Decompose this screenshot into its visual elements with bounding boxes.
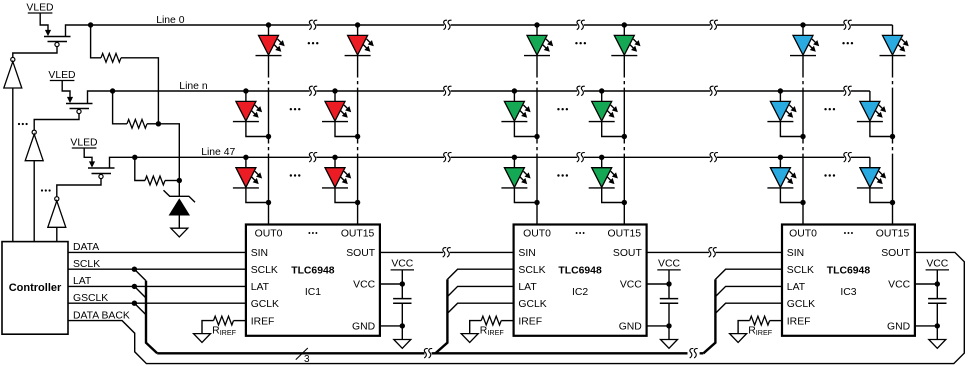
node R3 junction bbox=[177, 178, 182, 183]
node LAT label bbox=[73, 276, 92, 287]
wire Q1 drain to line bbox=[66, 22, 94, 36]
bus riser to IC2 bbox=[435, 279, 447, 353]
ellipsis OUT pins IC3 bbox=[844, 232, 853, 234]
node LAT tap junction bbox=[132, 284, 137, 289]
pin GCLK label IC2 bbox=[518, 299, 546, 310]
svg-text:LAT: LAT bbox=[787, 282, 806, 293]
ground RIREF IC1 bbox=[194, 334, 211, 343]
svg-text:SCLK: SCLK bbox=[73, 259, 100, 270]
pin SIN label IC3 bbox=[787, 248, 804, 259]
ellipsis row2 group 2 bbox=[557, 174, 568, 176]
wire break on Line 0 bbox=[444, 20, 452, 29]
wire LED cathode to column R1 bbox=[246, 188, 269, 203]
pin IREF label IC3 bbox=[787, 316, 811, 327]
svg-text:VCC: VCC bbox=[926, 258, 948, 269]
svg-text:OUT15: OUT15 bbox=[341, 228, 375, 239]
wire LED cathode to column B1 bbox=[780, 121, 803, 136]
svg-text:IREF: IREF bbox=[518, 316, 542, 327]
wire Q2 drain to line bbox=[88, 88, 116, 103]
wire DATA BACK return bbox=[68, 252, 964, 363]
svg-text:GCLK: GCLK bbox=[787, 299, 815, 310]
node line n junction col R2 bbox=[332, 88, 337, 93]
wire Q1 gate to inverter U1 bbox=[13, 47, 57, 58]
svg-text:VLED: VLED bbox=[70, 137, 97, 148]
node column join B2 bbox=[890, 134, 895, 139]
wire tap LAT IC2 bbox=[447, 286, 513, 296]
pin SCLK label IC2 bbox=[518, 265, 545, 276]
wire LED cathode to column B2 bbox=[870, 121, 893, 136]
node column join R1 bbox=[266, 134, 271, 139]
pin VCC label IC3 bbox=[888, 280, 910, 291]
pin GCLK label IC3 bbox=[787, 299, 815, 310]
ground capacitor C3 bbox=[915, 323, 946, 348]
VCC supply IC2 bbox=[647, 258, 681, 286]
node SCLK label bbox=[73, 259, 100, 270]
wire LED cathode to column G2 bbox=[602, 121, 625, 136]
wire SCLK bbox=[68, 268, 246, 270]
svg-text:SOUT: SOUT bbox=[881, 248, 911, 259]
LED row0 col B2 bbox=[880, 25, 909, 56]
node Line 47 label bbox=[201, 147, 235, 158]
LED line 47 col B1 bbox=[767, 168, 796, 188]
node line0 junction col G2 bbox=[622, 22, 627, 27]
node DATA label bbox=[73, 242, 99, 253]
ellipsis row2 group 3 bbox=[824, 174, 835, 176]
node Line n label bbox=[179, 81, 208, 92]
svg-text:IREF: IREF bbox=[220, 328, 237, 337]
svg-text:SIN: SIN bbox=[518, 248, 535, 259]
ellipsis row1 group 3 bbox=[824, 108, 835, 110]
node line n junction col B1 bbox=[778, 88, 783, 93]
node line 47 junction col G1 bbox=[512, 155, 517, 160]
pin OUT15 label IC1 bbox=[341, 228, 375, 239]
wire rail to zener bbox=[158, 124, 179, 197]
svg-text:IREF: IREF bbox=[756, 328, 773, 337]
wire break on bus 2 bbox=[690, 349, 698, 358]
VLED supply 2 bbox=[48, 70, 75, 81]
pin IREF label IC1 bbox=[251, 316, 275, 327]
capacitor C1 bbox=[393, 284, 411, 326]
wire break on Line n bbox=[309, 86, 317, 95]
node column join G1 bbox=[534, 134, 539, 139]
svg-text:TLC6948: TLC6948 bbox=[827, 265, 871, 276]
wire break on Line n bbox=[710, 86, 718, 95]
svg-text:SOUT: SOUT bbox=[613, 248, 643, 259]
wire column B2 with breaks bbox=[892, 56, 894, 225]
wire inverter U2 input from controller bbox=[33, 161, 35, 242]
svg-text:OUT15: OUT15 bbox=[876, 228, 910, 239]
wire break on Line 0 bbox=[577, 20, 585, 29]
wire LED anode col R1 bbox=[245, 157, 247, 167]
wire line 47 bend into LED col B2 bbox=[869, 157, 871, 167]
wire Q3 drain to line bbox=[110, 155, 138, 168]
wire tap GCLK IC3 bbox=[715, 303, 782, 313]
node column join B1 bbox=[800, 134, 805, 139]
bus slash 3-wire marker bbox=[296, 348, 310, 365]
LED line 47 col G1 bbox=[501, 168, 530, 188]
pin SIN label IC1 bbox=[251, 248, 268, 259]
inverter U3 bbox=[48, 197, 66, 228]
ground RIREF IC2 bbox=[461, 334, 478, 343]
wire LED cathode to column B1 bbox=[780, 188, 803, 203]
wire break on Line n bbox=[577, 86, 585, 95]
wire column B1 with breaks bbox=[802, 56, 804, 225]
wire tap GCLK IC2 bbox=[447, 303, 513, 313]
pin VCC label IC1 bbox=[353, 280, 375, 291]
svg-text:GSCLK: GSCLK bbox=[73, 293, 108, 304]
capacitor C3 bbox=[928, 284, 946, 326]
node SCLK tap junction bbox=[132, 267, 137, 272]
wire LED anode col G1 bbox=[513, 91, 515, 101]
PMOS transistor Q1 bbox=[40, 13, 70, 47]
LED line n col R2 bbox=[322, 101, 351, 121]
node line 47 junction col R1 bbox=[243, 155, 248, 160]
wire inverter U1 input from controller bbox=[12, 88, 14, 242]
node line n junction col G1 bbox=[512, 88, 517, 93]
wire GSCLK tap diagonal bbox=[134, 303, 146, 315]
svg-text:VCC: VCC bbox=[658, 258, 680, 269]
bus riser to IC3 bbox=[703, 279, 715, 353]
node line0 junction col G1 bbox=[534, 22, 539, 27]
wire Line 47 bbox=[135, 156, 870, 158]
LED line n col B1 bbox=[767, 101, 796, 121]
ellipsis row1 group 2 bbox=[557, 108, 568, 110]
ellipsis row2 group 1 bbox=[290, 174, 301, 176]
pin OUT0 label IC1 bbox=[255, 228, 283, 239]
wire LAT tap diagonal bbox=[134, 286, 146, 298]
LED line 47 col R1 bbox=[233, 168, 262, 188]
pin LAT label IC1 bbox=[251, 282, 270, 293]
pin IREF label IC2 bbox=[518, 316, 542, 327]
wire LED anode col B1 bbox=[779, 91, 781, 101]
svg-text:Controller: Controller bbox=[9, 282, 62, 294]
wire tap SCLK IC3 bbox=[715, 269, 782, 279]
svg-text:Line 0: Line 0 bbox=[156, 15, 185, 26]
svg-text:VLED: VLED bbox=[48, 70, 75, 81]
svg-text:VCC: VCC bbox=[391, 258, 413, 269]
node column join B1 bbox=[800, 200, 805, 205]
ground below zener bbox=[171, 228, 188, 237]
wire SCLK tap diagonal bbox=[134, 269, 146, 281]
zener diode D1 bbox=[164, 190, 196, 228]
wire break SOUT2 bbox=[709, 248, 717, 257]
svg-text:IREF: IREF bbox=[251, 316, 275, 327]
node GSCLK tap junction bbox=[132, 301, 137, 306]
resistor RIREF IC1 bbox=[202, 316, 246, 337]
svg-text:TLC6948: TLC6948 bbox=[291, 265, 335, 276]
wire LED cathode to column R2 bbox=[335, 188, 358, 203]
wire break on Line 47 bbox=[309, 153, 317, 162]
LED line 47 col B2 bbox=[857, 168, 886, 188]
node column join G2 bbox=[622, 134, 627, 139]
IC U2 IC2 TLC6948 box bbox=[514, 225, 647, 336]
wire LED cathode to column R1 bbox=[246, 121, 269, 136]
wire Line 0 bbox=[91, 24, 893, 26]
bus 3-wire vertical bbox=[146, 281, 157, 354]
wire LED anode col R1 bbox=[245, 91, 247, 101]
node line0 junction col R2 bbox=[355, 22, 360, 27]
wire column R2 with breaks bbox=[357, 56, 359, 225]
node column join B2 bbox=[890, 200, 895, 205]
wire column R1 with breaks bbox=[268, 56, 270, 225]
ellipsis OUT pins IC2 bbox=[576, 232, 585, 234]
wire tap LAT IC3 bbox=[715, 286, 782, 296]
wire LED cathode to column R2 bbox=[335, 121, 358, 136]
svg-text:SIN: SIN bbox=[251, 248, 268, 259]
svg-text:VCC: VCC bbox=[620, 280, 642, 291]
wire tap SCLK IC2 bbox=[447, 269, 513, 279]
wire break on Line 47 bbox=[844, 153, 852, 162]
wire GSCLK bbox=[68, 302, 246, 304]
svg-text:LAT: LAT bbox=[73, 276, 92, 287]
wire column G1 with breaks bbox=[536, 56, 538, 225]
LED row0 col G1 bbox=[524, 25, 553, 56]
pin LAT label IC2 bbox=[518, 282, 537, 293]
svg-text:IREF: IREF bbox=[787, 316, 811, 327]
capacitor C2 bbox=[660, 284, 678, 326]
svg-text:GND: GND bbox=[352, 322, 375, 333]
resistor Rline_n bbox=[113, 91, 159, 128]
wire LED cathode to column B2 bbox=[870, 188, 893, 203]
pin VCC label IC2 bbox=[620, 280, 642, 291]
pin LAT label IC3 bbox=[787, 282, 806, 293]
wire break on bus 1 bbox=[424, 349, 432, 358]
pin SOUT label IC2 bbox=[613, 248, 643, 259]
ellipsis row0 group 2 bbox=[575, 42, 586, 44]
LED line n col G1 bbox=[501, 101, 530, 121]
PMOS transistor Q3 bbox=[84, 148, 114, 179]
svg-text:GND: GND bbox=[619, 322, 642, 333]
wire LED anode col G1 bbox=[513, 157, 515, 167]
pin GCLK label IC1 bbox=[251, 299, 279, 310]
wire SOUT IC1 to SIN IC2 bbox=[380, 251, 514, 253]
LED row0 col R2 bbox=[345, 25, 374, 56]
wire LED anode col G2 bbox=[601, 157, 603, 167]
wire break on Line 47 bbox=[444, 153, 452, 162]
pin OUT15 label IC3 bbox=[876, 228, 910, 239]
svg-text:DATA: DATA bbox=[73, 242, 99, 253]
svg-text:OUT0: OUT0 bbox=[789, 228, 817, 239]
svg-text:IC2: IC2 bbox=[572, 287, 588, 298]
wire LED anode col R2 bbox=[334, 157, 336, 167]
VCC supply IC1 bbox=[380, 258, 414, 286]
node column join G2 bbox=[622, 200, 627, 205]
pin SOUT label IC3 bbox=[881, 248, 911, 259]
svg-text:OUT15: OUT15 bbox=[608, 228, 642, 239]
LED line n col G2 bbox=[589, 101, 618, 121]
resistor RIREF IC2 bbox=[470, 316, 514, 337]
wire break on Line 47 bbox=[710, 153, 718, 162]
wire inverter U3 input from controller bbox=[56, 227, 58, 241]
bus 3-wire horizontal bbox=[157, 352, 703, 354]
node column join R2 bbox=[355, 200, 360, 205]
wire Line n bbox=[113, 90, 870, 92]
svg-text:SOUT: SOUT bbox=[346, 248, 376, 259]
svg-text:OUT0: OUT0 bbox=[255, 228, 283, 239]
controller block bbox=[2, 242, 68, 335]
pin SCLK label IC3 bbox=[787, 265, 814, 276]
pin OUT0 label IC3 bbox=[789, 228, 817, 239]
node column join G1 bbox=[534, 200, 539, 205]
wire break on Line n bbox=[844, 86, 852, 95]
wire break on Line 0 bbox=[710, 20, 718, 29]
svg-text:Line 47: Line 47 bbox=[201, 147, 235, 158]
node R1/R2 junction bbox=[156, 121, 161, 126]
wire LED anode col G2 bbox=[601, 91, 603, 101]
LED line 47 col G2 bbox=[589, 168, 618, 188]
LED row0 col R1 bbox=[256, 25, 285, 56]
wire Q3 gate to inverter U3 bbox=[57, 179, 101, 197]
svg-text:VCC: VCC bbox=[353, 280, 375, 291]
wire break on Line 0 bbox=[309, 20, 317, 29]
svg-text:SCLK: SCLK bbox=[251, 265, 278, 276]
svg-text:VCC: VCC bbox=[888, 280, 910, 291]
svg-text:DATA BACK: DATA BACK bbox=[73, 310, 130, 321]
ellipsis OUT pins IC1 bbox=[308, 232, 317, 234]
svg-text:GCLK: GCLK bbox=[251, 299, 279, 310]
LED line n col R1 bbox=[233, 101, 262, 121]
svg-text:IC1: IC1 bbox=[305, 287, 321, 298]
resistor Rline_47 bbox=[135, 157, 180, 185]
ellipsis row0 group 1 bbox=[308, 42, 319, 44]
resistor Rline0 bbox=[91, 25, 159, 124]
pin OUT0 label IC2 bbox=[523, 228, 551, 239]
node line n junction col R1 bbox=[243, 88, 248, 93]
wire LED anode col B1 bbox=[779, 157, 781, 167]
node column join R2 bbox=[355, 134, 360, 139]
wire LED cathode to column G1 bbox=[514, 121, 537, 136]
svg-text:SIN: SIN bbox=[787, 248, 804, 259]
svg-text:Line n: Line n bbox=[179, 81, 208, 92]
node column join R1 bbox=[266, 200, 271, 205]
svg-text:LAT: LAT bbox=[518, 282, 537, 293]
node GSCLK label bbox=[73, 293, 108, 304]
svg-text:VLED: VLED bbox=[26, 2, 53, 13]
wire LAT bbox=[68, 285, 246, 287]
pin SOUT label IC1 bbox=[346, 248, 376, 259]
wire column G2 with breaks bbox=[623, 56, 625, 225]
svg-text:OUT0: OUT0 bbox=[523, 228, 551, 239]
VCC supply IC3 bbox=[915, 258, 949, 286]
node line 47 junction col B1 bbox=[778, 155, 783, 160]
ellipsis row1 group 1 bbox=[290, 108, 301, 110]
node line0 junction col B1 bbox=[800, 22, 805, 27]
ellipsis row0 group 3 bbox=[842, 42, 853, 44]
IC U3 IC3 TLC6948 box bbox=[782, 225, 915, 336]
wire break SOUT1 bbox=[443, 248, 451, 257]
PMOS transistor Q2 bbox=[62, 81, 92, 114]
node line n junction col G2 bbox=[599, 88, 604, 93]
wire break on Line n bbox=[444, 86, 452, 95]
node line 47 junction col G2 bbox=[599, 155, 604, 160]
wire break on Line 0 bbox=[844, 20, 852, 29]
pin SCLK label IC1 bbox=[251, 265, 278, 276]
pin GND label IC1 bbox=[352, 322, 375, 333]
wire LED anode col R2 bbox=[334, 91, 336, 101]
ground capacitor C2 bbox=[647, 323, 678, 348]
inverter U2 bbox=[25, 130, 43, 161]
wire LED cathode to column G2 bbox=[602, 188, 625, 203]
VLED supply 3 bbox=[70, 137, 97, 148]
svg-text:SCLK: SCLK bbox=[518, 265, 545, 276]
svg-text:TLC6948: TLC6948 bbox=[558, 265, 602, 276]
pin OUT15 label IC2 bbox=[608, 228, 642, 239]
wire break on Line 47 bbox=[577, 153, 585, 162]
node line0 junction col R1 bbox=[266, 22, 271, 27]
ellipsis between inverters 2-3 bbox=[41, 189, 51, 191]
inverter U1 bbox=[4, 57, 22, 88]
svg-text:IREF: IREF bbox=[487, 328, 504, 337]
pin GND label IC2 bbox=[619, 322, 642, 333]
svg-text:SCLK: SCLK bbox=[787, 265, 814, 276]
ground RIREF IC3 bbox=[730, 334, 747, 343]
node line 47 junction col R2 bbox=[332, 155, 337, 160]
svg-text:GCLK: GCLK bbox=[518, 299, 546, 310]
node Line 0 label bbox=[156, 15, 185, 26]
wire line n bend into LED col B2 bbox=[869, 91, 871, 101]
wire SOUT IC2 to SIN IC3 bbox=[647, 251, 782, 253]
resistor RIREF IC3 bbox=[738, 316, 782, 337]
wire LED cathode to column G1 bbox=[514, 188, 537, 203]
svg-text:IC3: IC3 bbox=[840, 287, 856, 298]
ellipsis between inverters 1-2 bbox=[18, 123, 28, 125]
LED row0 col B1 bbox=[790, 25, 819, 56]
VLED supply 1 bbox=[26, 2, 53, 13]
svg-text:LAT: LAT bbox=[251, 282, 270, 293]
svg-text:GND: GND bbox=[887, 322, 910, 333]
LED line 47 col R2 bbox=[322, 168, 351, 188]
node DATA BACK label bbox=[73, 310, 130, 321]
wire Q2 gate to inverter U2 bbox=[34, 114, 79, 131]
wire DATA bbox=[68, 251, 246, 253]
IC U1 IC1 TLC6948 box bbox=[246, 225, 380, 336]
pin GND label IC3 bbox=[887, 322, 910, 333]
ground capacitor C1 bbox=[380, 323, 411, 348]
LED row0 col G2 bbox=[611, 25, 640, 56]
pin SIN label IC2 bbox=[518, 248, 535, 259]
LED line n col B2 bbox=[857, 101, 886, 121]
